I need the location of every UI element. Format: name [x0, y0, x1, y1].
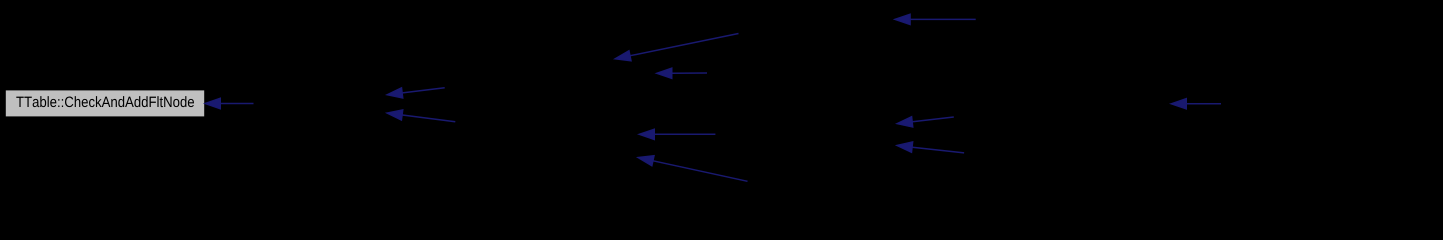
edge11 arrow: horizontal, far right	[1171, 98, 1222, 109]
edge5 arrow: short horizontal, upper centre	[656, 68, 707, 79]
edge10 arrow: lower diagonal, mid right	[896, 142, 964, 153]
edge8 arrow: horizontal, top right	[894, 14, 975, 25]
edge3 arrow: lower caller into mid hidden node	[386, 110, 455, 122]
edge1 arrow: hidden caller to TTable::CheckAndAddFltNode	[205, 98, 254, 109]
edge6 arrow: horizontal, lower centre	[639, 129, 716, 140]
edge9 arrow: upper diagonal, mid right	[897, 116, 954, 127]
node box TTable::CheckAndAddFltNode	[5, 90, 205, 117]
edge2 arrow: upper caller into mid hidden node	[387, 88, 445, 99]
edge7 arrow: long diagonal, lower centre	[638, 156, 748, 182]
edge4 arrow: steep diagonal, upper centre	[615, 34, 739, 62]
